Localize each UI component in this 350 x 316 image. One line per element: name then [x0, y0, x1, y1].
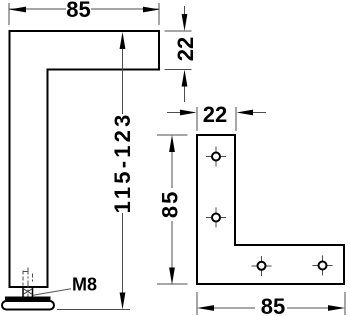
svg-text:M8: M8: [72, 275, 97, 295]
svg-text:85: 85: [66, 0, 90, 22]
svg-text:22: 22: [173, 37, 198, 61]
svg-text:85: 85: [158, 190, 183, 218]
svg-text:22: 22: [203, 102, 227, 127]
svg-text:85: 85: [261, 294, 285, 316]
svg-text:115-123: 115-123: [110, 111, 135, 213]
